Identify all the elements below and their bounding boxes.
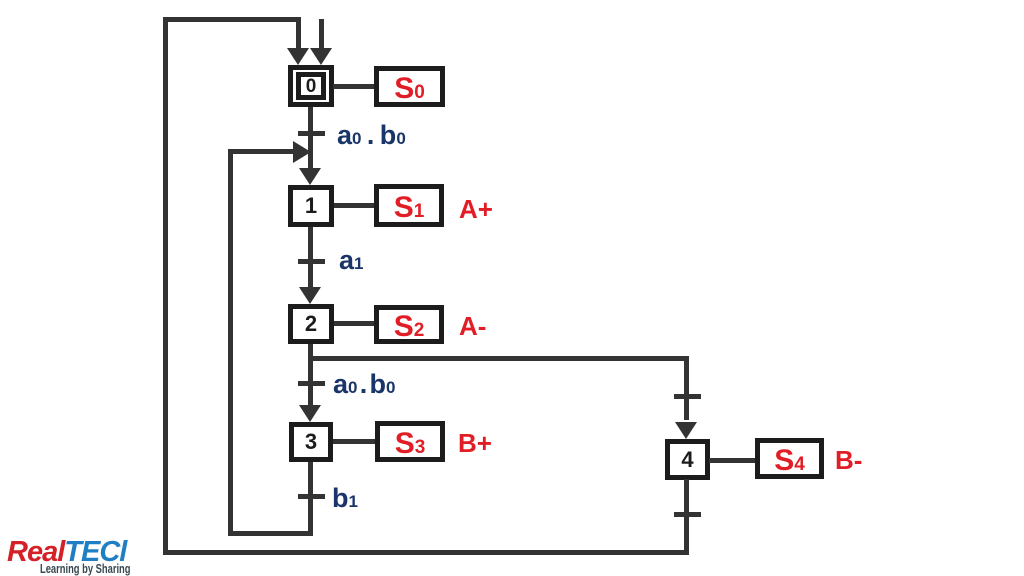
- arrowhead into step 3: [299, 405, 321, 422]
- transition tick a0.b0: [298, 131, 325, 136]
- wire connector step0 to S0: [333, 84, 374, 89]
- arrowhead into step 0 from loop: [287, 48, 309, 65]
- action box S2: [374, 305, 444, 344]
- wire inner loop bottom horizontal: [228, 531, 313, 536]
- wire outer loop top horizontal: [163, 17, 301, 22]
- action box S4: [755, 438, 824, 479]
- wire spine step1 to step2: [308, 227, 313, 287]
- step 4: [665, 439, 710, 480]
- arrowhead return into spine: [293, 141, 311, 163]
- wire outer loop bottom horizontal: [163, 550, 689, 555]
- wire inner return horizontal: [228, 149, 293, 154]
- action box S0: [374, 66, 445, 107]
- logo RealTECl: [7, 538, 167, 576]
- arrowhead into step 4: [675, 422, 697, 439]
- label A-: [459, 313, 486, 339]
- wire connector step3 to S3: [333, 439, 375, 444]
- wire inner loop left vertical: [228, 149, 233, 536]
- arrowhead into step 1: [299, 168, 321, 185]
- wire spine step0 to step1: [308, 107, 313, 170]
- arrowhead into step 2: [299, 287, 321, 304]
- transition tick into step4: [674, 394, 701, 399]
- wire spine step2 down: [308, 344, 313, 405]
- wire spine step3 down to inner loop: [308, 462, 313, 536]
- transition tick below step4: [674, 512, 701, 517]
- step 3: [289, 422, 333, 462]
- wire connector step1 to S1: [334, 203, 374, 208]
- wire initial entry stem: [319, 19, 324, 48]
- transition tick a1: [298, 259, 325, 264]
- node condition a0 . b0: [337, 122, 406, 149]
- label B-: [835, 447, 862, 473]
- node condition b1: [332, 485, 358, 512]
- wire branch horizontal to step4: [311, 356, 689, 361]
- arrowhead into step 0 initial: [310, 48, 332, 65]
- wire outer loop left vertical: [163, 17, 168, 555]
- label B+: [458, 430, 492, 456]
- label A+: [459, 196, 493, 222]
- wire step4 branch vertical upper: [684, 356, 689, 420]
- transition tick a0.b0 (second): [298, 381, 325, 386]
- wire connector step2 to S2: [334, 321, 374, 326]
- action box S3: [375, 421, 445, 462]
- node condition a1: [339, 247, 364, 274]
- wire outer loop entry stem: [296, 17, 301, 48]
- wire step4 spine lower: [684, 479, 689, 555]
- node condition a0.b0: [333, 371, 395, 398]
- step 0 (initial, double box): [288, 65, 334, 107]
- step 2: [288, 304, 334, 344]
- step 1: [288, 185, 334, 227]
- action box S1: [374, 184, 444, 227]
- wire connector step4 to S4: [709, 458, 755, 463]
- transition tick b1: [298, 494, 325, 499]
